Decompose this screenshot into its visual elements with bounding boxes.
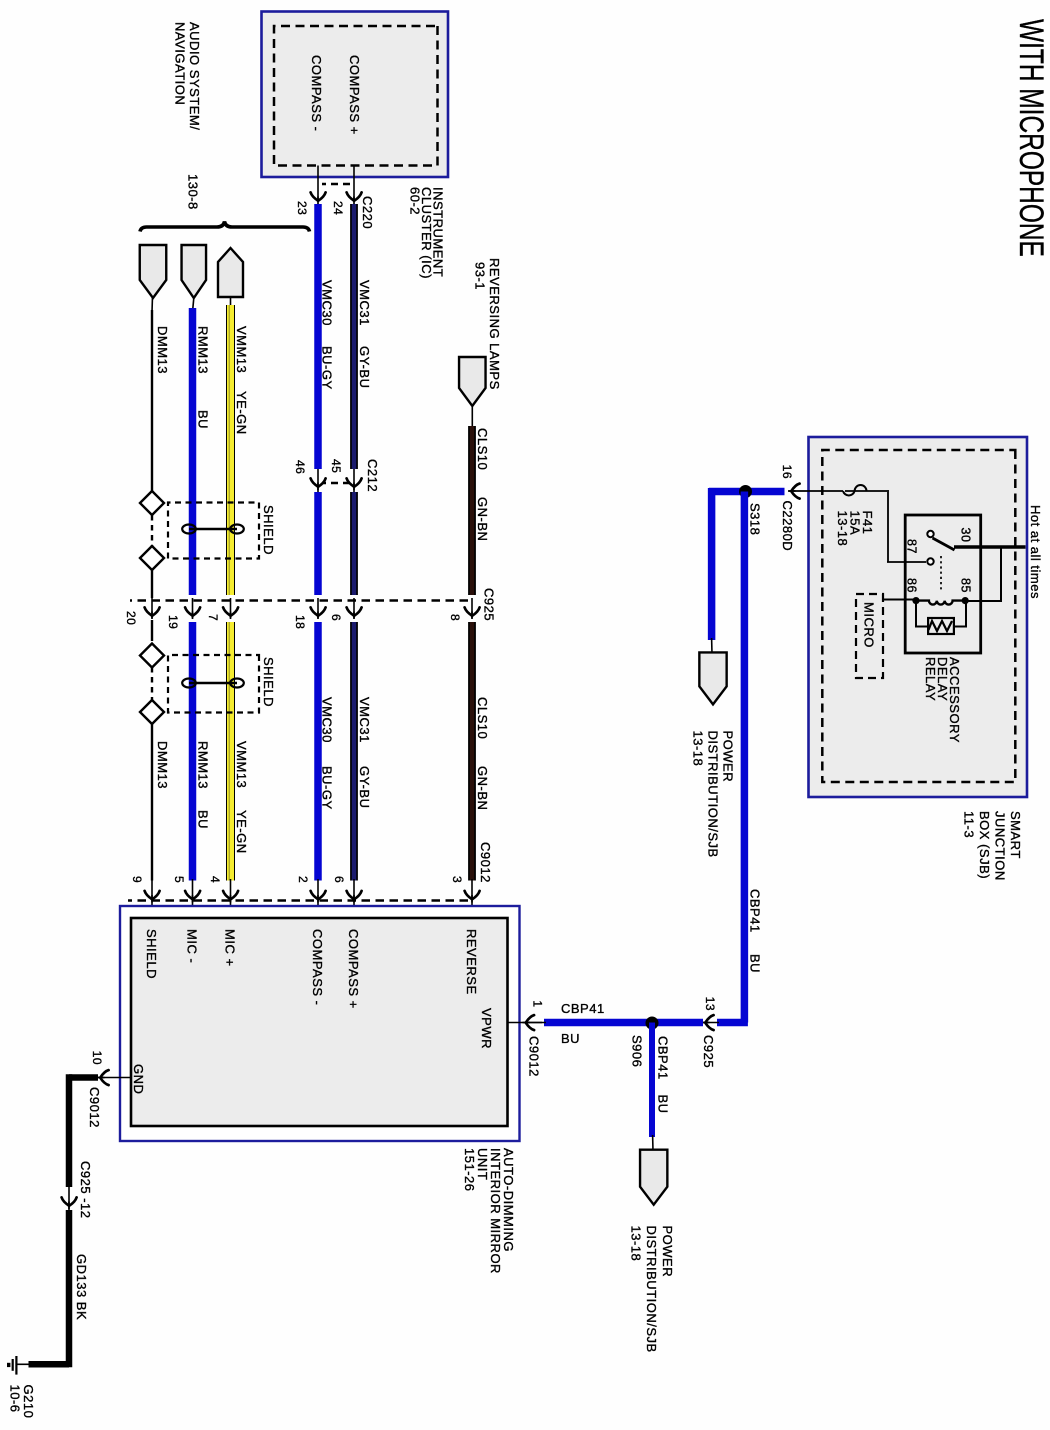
svg-text:S906: S906 bbox=[630, 1035, 645, 1067]
auto-dimming mirror inner box bbox=[131, 918, 508, 1126]
pin label 30 bbox=[959, 528, 973, 543]
svg-text:2: 2 bbox=[296, 876, 310, 883]
svg-text:46: 46 bbox=[293, 460, 307, 474]
svg-text:GND: GND bbox=[131, 1064, 146, 1094]
label REVERSING LAMPS 93-1 bbox=[473, 258, 503, 390]
label AUTO-DIMMING INTERIOR MIRROR UNIT 151-26 bbox=[462, 1148, 516, 1274]
label ACCESSORY DELAY RELAY bbox=[923, 657, 962, 743]
label POWER DISTRIBUTION/SJB 13-18 (1) bbox=[691, 731, 736, 858]
relay switch arm bbox=[933, 538, 955, 550]
svg-text:WITH MICROPHONE: WITH MICROPHONE bbox=[1012, 19, 1050, 257]
title WITH MICROPHONE bbox=[1012, 19, 1050, 257]
svg-text:20: 20 bbox=[124, 611, 138, 625]
svg-text:VMC30: VMC30 bbox=[320, 280, 335, 326]
wire CBP41 down segment bbox=[717, 1019, 748, 1027]
svg-text:C9012: C9012 bbox=[527, 1036, 542, 1077]
svg-text:6: 6 bbox=[332, 876, 346, 883]
pin number 23 bbox=[295, 201, 309, 215]
svg-text:6: 6 bbox=[329, 614, 343, 621]
svg-text:BU: BU bbox=[748, 954, 763, 973]
svg-text:NAVIGATION: NAVIGATION bbox=[173, 22, 188, 105]
svg-text:BU: BU bbox=[656, 1095, 671, 1114]
wire GD133 BK bbox=[29, 1210, 70, 1367]
label S906 bbox=[630, 1035, 645, 1067]
svg-text:13-18: 13-18 bbox=[691, 731, 706, 767]
wire DMM13 segment A2 bbox=[151, 570, 153, 598]
label C9012 bbox=[478, 842, 493, 883]
pin label 85 bbox=[959, 578, 973, 593]
wire DMM13 segment A bbox=[151, 310, 153, 492]
pin number 19 at C925 bbox=[166, 615, 180, 629]
svg-text:5: 5 bbox=[172, 876, 186, 883]
svg-text:CBP41: CBP41 bbox=[656, 1036, 671, 1080]
svg-text:VMC31: VMC31 bbox=[357, 697, 372, 743]
svg-text:S318: S318 bbox=[748, 503, 763, 535]
label DMM13 B bbox=[155, 741, 170, 789]
svg-text:16: 16 bbox=[780, 465, 794, 479]
label VMC30 BU-GY A bbox=[320, 280, 335, 390]
wire CLS10 GN-BN segment A bbox=[468, 426, 476, 595]
svg-text:13: 13 bbox=[703, 997, 717, 1011]
mirror pin GND lead bbox=[98, 1077, 131, 1079]
label G210 10-6 bbox=[8, 1385, 37, 1419]
svg-text:RELAY: RELAY bbox=[923, 657, 938, 701]
svg-text:C212: C212 bbox=[365, 459, 380, 492]
svg-text:VMC30: VMC30 bbox=[320, 697, 335, 743]
pin label 86 bbox=[905, 578, 919, 593]
pin number 4 at C9012 bbox=[208, 876, 222, 883]
mirror pin label COMPASS + bbox=[346, 929, 361, 1009]
C925 arrow pin 7 (VMM13) bbox=[223, 598, 238, 619]
svg-text:7: 7 bbox=[206, 614, 220, 621]
pin number 45 bbox=[329, 459, 343, 473]
wire micro to 86 bbox=[883, 599, 916, 601]
svg-text:18: 18 bbox=[293, 615, 307, 629]
C9012 arrow pin 2 (COMPASS-) bbox=[311, 879, 326, 919]
connector C220 arrow pin 23 bbox=[311, 192, 326, 204]
svg-text:CLS10: CLS10 bbox=[475, 428, 490, 470]
C925 arrow pin 19 (RMM13) bbox=[185, 598, 200, 619]
svg-text:151-26: 151-26 bbox=[462, 1148, 477, 1191]
wire CBP41 BU long run bbox=[741, 492, 749, 1023]
connector C212 dashed link bbox=[322, 482, 350, 484]
svg-text:COMPASS +: COMPASS + bbox=[347, 55, 362, 135]
wire CBP41 branch 2 bbox=[649, 1023, 655, 1138]
wire VMC30 BU-GY segment A bbox=[314, 204, 322, 469]
label CLS10 GN-BN A bbox=[475, 428, 490, 541]
svg-text:VMM13: VMM13 bbox=[234, 741, 249, 788]
label COMPASS - (IC pin) bbox=[309, 55, 324, 132]
label VMM13 YE-GN A bbox=[234, 326, 249, 435]
svg-text:C925: C925 bbox=[482, 588, 497, 621]
mirror pin label COMPASS - bbox=[310, 929, 325, 1006]
wire RMM13 segment A bbox=[189, 308, 197, 595]
label DMM13 A bbox=[155, 326, 170, 374]
label C925 at pin 13 bbox=[701, 1035, 716, 1068]
svg-text:BU: BU bbox=[196, 810, 211, 829]
label F41 15A 13-18 bbox=[835, 511, 875, 547]
svg-text:4: 4 bbox=[208, 876, 222, 883]
svg-text:GD133 BK: GD133 BK bbox=[74, 1254, 89, 1320]
connector RMM13 (audio) bbox=[182, 245, 207, 298]
wire GND thick down bbox=[69, 1074, 98, 1187]
pin number 7 at C925 bbox=[206, 614, 220, 621]
svg-text:3: 3 bbox=[450, 876, 464, 883]
C9012 arrow pin 6 (COMPASS+) bbox=[347, 879, 362, 919]
svg-text:SHIELD: SHIELD bbox=[261, 505, 276, 555]
wire VMC31 GY-BU segment C bbox=[350, 622, 358, 881]
wire branch lead bbox=[711, 638, 713, 654]
shield drain diamond 3 bbox=[140, 644, 164, 668]
relay coil terminal 86 dot bbox=[912, 597, 919, 604]
pin number 8 at C925 bbox=[448, 614, 462, 621]
wire CLS10 lead bbox=[471, 404, 473, 428]
pin number 2 at C9012 bbox=[296, 876, 310, 883]
svg-text:AUTO-DIMMING: AUTO-DIMMING bbox=[501, 1148, 516, 1252]
pin number 3 at C9012 bbox=[450, 876, 464, 883]
wire branch 2 lead bbox=[652, 1135, 654, 1151]
label C9012 at GND bbox=[87, 1087, 102, 1128]
label RMM13 BU A bbox=[196, 326, 211, 429]
C925 arrow pin 13 bbox=[701, 1015, 719, 1030]
svg-text:VMC31: VMC31 bbox=[357, 280, 372, 326]
shield 2 dashed box bbox=[168, 655, 259, 713]
label CBP41 BU branch 2 bbox=[656, 1036, 671, 1114]
wire VMC31 GY-BU segment A bbox=[350, 204, 358, 469]
pin number 24 bbox=[331, 201, 345, 215]
wire VMC31 GY-BU segment B bbox=[350, 492, 358, 595]
svg-text:COMPASS -: COMPASS - bbox=[310, 929, 325, 1006]
label SMART JUNCTION BOX (SJB) 11-3 bbox=[962, 811, 1024, 881]
ground lead bbox=[17, 1363, 30, 1365]
svg-text:SMART: SMART bbox=[1008, 811, 1023, 859]
connector VMM13 (audio) bbox=[218, 248, 243, 297]
resistor R (relay) bbox=[928, 618, 954, 634]
mirror pin VPWR lead bbox=[508, 1022, 543, 1024]
connector C212 arrow pin 46 bbox=[311, 478, 326, 490]
relay switch pivot bbox=[927, 531, 933, 537]
C925 arrow pin 20 (DMM13) bbox=[145, 598, 160, 619]
svg-text:24: 24 bbox=[331, 201, 345, 215]
svg-text:POWER: POWER bbox=[660, 1226, 675, 1278]
wire DMM13 shield dashed 1 bbox=[151, 515, 153, 547]
label C925 -12 bbox=[78, 1161, 93, 1218]
connector reversing lamps bbox=[459, 357, 486, 406]
C9012 arrow pin 10 (GND) bbox=[97, 1070, 109, 1085]
wire hot feed (30) bbox=[954, 545, 1026, 549]
svg-text:COMPASS -: COMPASS - bbox=[309, 55, 324, 132]
svg-text:86: 86 bbox=[905, 578, 919, 593]
SJB pin 16 lead bbox=[789, 490, 843, 492]
connector C925 dashed line bbox=[130, 599, 468, 602]
micro dashed box bbox=[856, 594, 883, 678]
svg-text:SHIELD: SHIELD bbox=[261, 657, 276, 707]
svg-text:VMM13: VMM13 bbox=[234, 326, 249, 373]
C9012 arrow pin 5 (MIC-) bbox=[185, 879, 200, 919]
smart junction box SJB bbox=[809, 437, 1028, 797]
svg-text:DMM13: DMM13 bbox=[155, 741, 170, 789]
C925 arrow pin 8 (CLS10) bbox=[465, 598, 480, 619]
svg-text:BU: BU bbox=[196, 410, 211, 429]
accessory delay relay box bbox=[905, 515, 981, 653]
label SHIELD 2 bbox=[261, 657, 276, 707]
wire IC pin 23 lead bbox=[317, 166, 319, 200]
label C925 bbox=[482, 588, 497, 621]
mirror pin label REVERSE bbox=[464, 929, 479, 995]
svg-text:MIC -: MIC - bbox=[185, 929, 200, 963]
ground symbol G210 bbox=[9, 1356, 17, 1375]
wire RMM13 segment B bbox=[189, 622, 197, 881]
svg-text:Hot at all times: Hot at all times bbox=[1028, 505, 1043, 599]
svg-text:DMM13: DMM13 bbox=[155, 326, 170, 374]
connector POWER DISTRIBUTION 1 bbox=[699, 652, 726, 704]
mirror pin label SHIELD bbox=[144, 929, 159, 979]
svg-text:GN-BN: GN-BN bbox=[475, 497, 490, 541]
svg-text:13-18: 13-18 bbox=[835, 511, 850, 547]
connector C212 arrow pin 45 bbox=[347, 478, 362, 490]
instrument cluster IC box bbox=[262, 12, 449, 178]
shield 1 dashed box bbox=[168, 503, 259, 559]
pin number 18 at C925 bbox=[293, 615, 307, 629]
connector C220 dashed link bbox=[322, 183, 350, 185]
svg-text:19: 19 bbox=[166, 615, 180, 629]
wire CLS10 GN-BN segment B bbox=[468, 622, 476, 881]
svg-text:30: 30 bbox=[959, 528, 973, 543]
C925 arrow pin 6 (VMC31) bbox=[347, 598, 362, 619]
C9012 arrow pin 3 (REVERSE) bbox=[465, 879, 480, 919]
wire CBP41 branch to SJB feed bbox=[708, 488, 716, 640]
relay coil bbox=[918, 601, 963, 605]
svg-text:C925 -12: C925 -12 bbox=[78, 1161, 93, 1218]
mirror pin label GND bbox=[131, 1064, 146, 1094]
svg-text:INTERIOR MIRROR: INTERIOR MIRROR bbox=[488, 1148, 503, 1274]
connector C2280D arrow pin 16 bbox=[788, 484, 800, 499]
mirror pin label MIC - bbox=[185, 929, 200, 963]
pin number 9 at C9012 bbox=[130, 876, 144, 883]
wire VMC30 C212 gap lead bbox=[317, 469, 319, 492]
wire CBP41 down segment 2 bbox=[544, 1019, 703, 1027]
pin number 10 bbox=[90, 1051, 104, 1065]
pin number 46 bbox=[293, 460, 307, 474]
SJB inner dashed box bbox=[822, 450, 1015, 782]
mirror pin label VPWR bbox=[479, 1008, 494, 1049]
svg-text:1: 1 bbox=[531, 1000, 545, 1007]
svg-text:MIC +: MIC + bbox=[223, 929, 238, 967]
pin number 6 at C925 bbox=[329, 614, 343, 621]
svg-text:BU-GY: BU-GY bbox=[320, 346, 335, 390]
wire 86 to resistor bbox=[915, 602, 928, 627]
label 130-8 bbox=[186, 174, 201, 210]
wire VMC30 BU-GY segment C bbox=[314, 622, 322, 881]
C9012 arrow pin 1 (VPWR) bbox=[523, 1015, 535, 1030]
IC inner dashed box bbox=[274, 26, 438, 166]
label AUDIO SYSTEM/NAVIGATION bbox=[173, 22, 203, 130]
wire VMM13 lead bbox=[230, 297, 232, 308]
label VMM13 YE-GN B bbox=[234, 741, 249, 854]
svg-text:C220: C220 bbox=[360, 196, 375, 229]
auto-dimming mirror outer box bbox=[120, 906, 520, 1141]
svg-text:10-6: 10-6 bbox=[8, 1385, 23, 1413]
label COMPASS + (IC pin) bbox=[347, 55, 362, 135]
relay terminal 87 bbox=[927, 558, 933, 564]
wire VMC31 C212 gap lead bbox=[353, 469, 355, 492]
shield drain diamond 4 bbox=[140, 700, 164, 724]
wire VMM13 segment A bbox=[229, 305, 230, 595]
wire 85 to resistor bbox=[954, 602, 967, 627]
svg-text:C925: C925 bbox=[701, 1035, 716, 1068]
svg-text:SHIELD: SHIELD bbox=[144, 929, 159, 979]
svg-text:AUDIO SYSTEM/: AUDIO SYSTEM/ bbox=[187, 22, 202, 130]
wire VMC30 BU-GY segment B bbox=[314, 492, 322, 595]
label VMC30 BU-GY B bbox=[320, 697, 335, 810]
label C212 bbox=[365, 459, 380, 492]
relay coil terminal 85 dot bbox=[962, 597, 969, 604]
svg-text:CBP41: CBP41 bbox=[561, 1001, 605, 1016]
label CBP41 vertical bbox=[561, 1001, 605, 1016]
svg-text:REVERSE: REVERSE bbox=[464, 929, 479, 995]
wire DMM13 lead bbox=[151, 296, 154, 312]
splice S318 bbox=[739, 485, 752, 498]
fuse F41 bbox=[843, 485, 867, 495]
label VMC31 GY-BU A bbox=[357, 280, 372, 388]
svg-text:YE-GN: YE-GN bbox=[234, 391, 249, 435]
svg-text:CBP41: CBP41 bbox=[748, 889, 763, 933]
wire VMM13 segment B bbox=[229, 622, 230, 881]
label SHIELD 1 bbox=[261, 505, 276, 555]
wire IC pin 24 lead bbox=[353, 166, 355, 200]
connector C925 pin 12 arrow on ground bbox=[62, 1185, 77, 1212]
wire 85 to hot bbox=[966, 546, 1001, 602]
svg-text:DISTRIBUTION/SJB: DISTRIBUTION/SJB bbox=[644, 1226, 659, 1353]
relay link dotted bbox=[940, 556, 942, 592]
svg-text:GN-BN: GN-BN bbox=[475, 766, 490, 810]
svg-text:8: 8 bbox=[448, 614, 462, 621]
svg-text:POWER: POWER bbox=[721, 731, 736, 783]
label S318 bbox=[748, 503, 763, 535]
C925 arrow pin 18 (VMC30) bbox=[311, 598, 326, 619]
svg-text:9: 9 bbox=[130, 876, 144, 883]
wire RMM13 lead bbox=[193, 298, 194, 312]
svg-text:C2280D: C2280D bbox=[780, 501, 795, 552]
pin label 87 bbox=[905, 539, 919, 554]
svg-text:VPWR: VPWR bbox=[479, 1008, 494, 1049]
svg-text:C9012: C9012 bbox=[478, 842, 493, 883]
label C9012 at VPWR bbox=[527, 1036, 542, 1077]
wire CBP41 vertical at pin16 bbox=[709, 488, 785, 496]
svg-text:10: 10 bbox=[90, 1051, 104, 1065]
svg-text:130-8: 130-8 bbox=[186, 174, 201, 210]
label CBP41 BU long run bbox=[748, 889, 763, 973]
svg-text:87: 87 bbox=[905, 539, 919, 554]
svg-text:23: 23 bbox=[295, 201, 309, 215]
svg-text:BU: BU bbox=[561, 1031, 580, 1046]
svg-text:85: 85 bbox=[959, 578, 973, 593]
shield 2 strap bbox=[182, 679, 244, 688]
svg-text:RMM13: RMM13 bbox=[196, 741, 211, 789]
svg-text:60-2: 60-2 bbox=[408, 187, 423, 215]
label POWER DISTRIBUTION/SJB 13-18 (2) bbox=[629, 1226, 676, 1353]
pin number 16 bbox=[780, 465, 794, 479]
wire DMM13 shield dashed 2 bbox=[151, 667, 153, 700]
mirror pin label MIC + bbox=[223, 929, 238, 967]
wire DMM13 segment B bbox=[151, 620, 153, 641]
label MICRO bbox=[862, 602, 877, 648]
svg-text:RMM13: RMM13 bbox=[196, 326, 211, 374]
shield drain diamond 2 bbox=[140, 546, 164, 570]
svg-text:CLS10: CLS10 bbox=[475, 697, 490, 739]
svg-text:GY-BU: GY-BU bbox=[357, 346, 372, 388]
svg-text:DISTRIBUTION/SJB: DISTRIBUTION/SJB bbox=[706, 731, 721, 858]
svg-text:G210: G210 bbox=[21, 1385, 36, 1419]
C9012 arrow pin 4 (MIC+) bbox=[223, 879, 238, 919]
svg-text:11-3: 11-3 bbox=[962, 811, 977, 838]
label Hot at all times bbox=[1028, 505, 1043, 599]
wire DMM13 segment B2 bbox=[151, 724, 153, 881]
svg-text:MICRO: MICRO bbox=[862, 602, 877, 648]
svg-text:GY-BU: GY-BU bbox=[357, 766, 372, 808]
svg-text:JUNCTION: JUNCTION bbox=[993, 811, 1008, 881]
label C2280D bbox=[780, 501, 795, 552]
svg-text:COMPASS +: COMPASS + bbox=[346, 929, 361, 1009]
pin number 1 bbox=[531, 1000, 545, 1007]
wire VPWR thin lead bbox=[528, 1022, 546, 1024]
label CLS10 GN-BN B bbox=[475, 697, 490, 810]
svg-text:UNIT: UNIT bbox=[475, 1148, 490, 1180]
svg-text:YE-GN: YE-GN bbox=[234, 810, 249, 854]
label GD133 BK bbox=[74, 1254, 89, 1320]
svg-text:BOX (SJB): BOX (SJB) bbox=[977, 811, 992, 879]
label RMM13 BU B bbox=[196, 741, 211, 829]
svg-text:13-18: 13-18 bbox=[629, 1226, 644, 1262]
label C220 bbox=[360, 196, 375, 229]
splice S906 bbox=[646, 1017, 659, 1030]
shield drain diamond 1 bbox=[140, 491, 164, 515]
pin number 13 bbox=[703, 997, 717, 1011]
svg-text:BU-GY: BU-GY bbox=[320, 766, 335, 810]
label INSTRUMENT CLUSTER (IC) 60-2 bbox=[408, 187, 446, 279]
pin number 20 at C925 bbox=[124, 611, 138, 625]
connector DMM13 (audio) bbox=[140, 245, 167, 298]
pin number 5 at C9012 bbox=[172, 876, 186, 883]
brace 130-8 bbox=[140, 222, 310, 232]
connector C9012 dashed line bbox=[128, 899, 468, 902]
connector POWER DISTRIBUTION 2 bbox=[640, 1150, 667, 1205]
svg-text:REVERSING LAMPS: REVERSING LAMPS bbox=[487, 258, 502, 390]
label BU vertical bbox=[561, 1031, 580, 1046]
connector C220 arrow pin 24 bbox=[347, 192, 362, 204]
wire 87 feed from fuse bbox=[845, 490, 926, 562]
label VMC31 GY-BU B bbox=[357, 697, 372, 808]
svg-text:93-1: 93-1 bbox=[473, 262, 488, 290]
C9012 arrow pin 9 (SHIELD) bbox=[145, 879, 160, 919]
shield 1 strap bbox=[182, 525, 244, 534]
pin number 6 at C9012 bbox=[332, 876, 346, 883]
svg-text:C9012: C9012 bbox=[87, 1087, 102, 1128]
svg-text:45: 45 bbox=[329, 459, 343, 473]
